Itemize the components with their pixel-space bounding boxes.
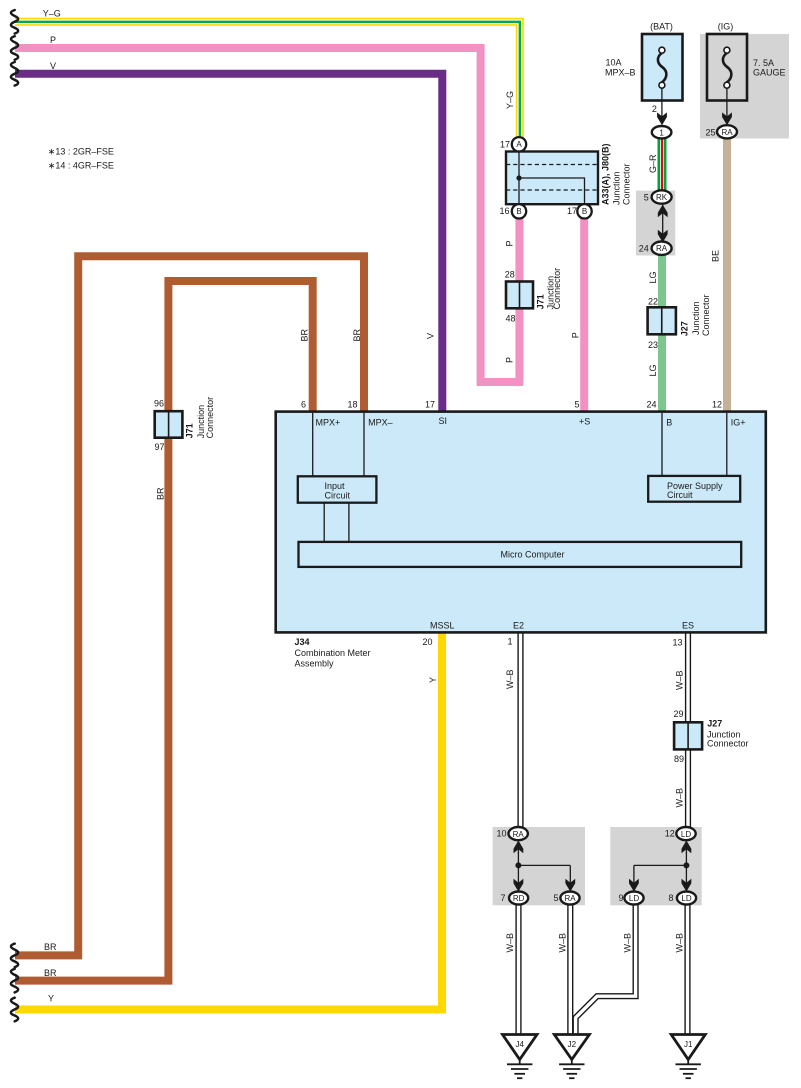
svg-text:89: 89 <box>674 754 684 764</box>
svg-text:48: 48 <box>505 314 515 324</box>
svg-text:BR: BR <box>44 942 57 952</box>
svg-text:W–B: W–B <box>675 788 685 808</box>
svg-text:LD: LD <box>681 830 691 839</box>
svg-text:J4: J4 <box>515 1040 524 1049</box>
svg-text:MSSL: MSSL <box>430 621 455 631</box>
svg-text:(IG): (IG) <box>718 22 734 32</box>
svg-text:W–B: W–B <box>622 933 632 953</box>
svg-text:17: 17 <box>500 140 510 150</box>
svg-text:Circuit: Circuit <box>667 490 693 500</box>
svg-text:(BAT): (BAT) <box>650 22 673 32</box>
svg-text:7: 7 <box>500 893 505 903</box>
svg-text:W–B: W–B <box>674 933 684 953</box>
svg-text:25: 25 <box>705 128 715 138</box>
svg-text:Circuit: Circuit <box>325 491 351 501</box>
svg-text:97: 97 <box>154 442 164 452</box>
svg-text:BR: BR <box>300 328 310 341</box>
svg-text:P: P <box>504 240 514 246</box>
svg-text:+S: +S <box>579 417 590 427</box>
svg-text:23: 23 <box>648 340 658 350</box>
svg-text:12: 12 <box>712 400 722 410</box>
svg-text:LG: LG <box>648 271 658 283</box>
svg-text:RD: RD <box>513 894 525 903</box>
svg-text:J2: J2 <box>568 1040 577 1049</box>
svg-text:J71: J71 <box>185 423 195 438</box>
svg-text:W–B: W–B <box>557 933 567 953</box>
svg-text:5: 5 <box>553 893 558 903</box>
svg-text:MPX–: MPX– <box>368 417 393 427</box>
svg-text:V: V <box>50 61 56 71</box>
svg-text:7. 5A: 7. 5A <box>753 58 774 68</box>
svg-text:LG: LG <box>648 364 658 376</box>
svg-text:Junction: Junction <box>691 301 701 335</box>
svg-text:29: 29 <box>673 709 683 719</box>
svg-text:J1: J1 <box>684 1040 693 1049</box>
svg-text:J34: J34 <box>295 637 310 647</box>
svg-text:LD: LD <box>681 894 691 903</box>
svg-text:E2: E2 <box>513 621 524 631</box>
svg-text:5: 5 <box>644 193 649 203</box>
svg-text:Connector: Connector <box>552 268 562 310</box>
svg-text:BR: BR <box>44 968 57 978</box>
svg-text:12: 12 <box>665 829 675 839</box>
svg-text:2: 2 <box>652 104 657 114</box>
svg-text:W–B: W–B <box>675 670 685 690</box>
svg-text:96: 96 <box>154 399 164 409</box>
svg-text:17: 17 <box>567 206 577 216</box>
svg-text:BR: BR <box>352 328 362 341</box>
svg-text:Y–G: Y–G <box>505 91 515 109</box>
svg-text:G–R: G–R <box>648 154 658 173</box>
svg-text:Connector: Connector <box>621 163 631 205</box>
svg-text:9: 9 <box>618 893 623 903</box>
svg-text:6: 6 <box>301 400 306 410</box>
svg-text:5: 5 <box>574 400 579 410</box>
svg-text:1: 1 <box>659 128 664 137</box>
svg-text:SI: SI <box>439 416 448 426</box>
svg-text:20: 20 <box>422 637 432 647</box>
svg-text:P: P <box>50 35 56 45</box>
svg-text:28: 28 <box>505 270 515 280</box>
svg-text:IG+: IG+ <box>731 417 746 427</box>
svg-text:Y: Y <box>428 677 438 683</box>
svg-text:10: 10 <box>496 829 506 839</box>
svg-text:16: 16 <box>499 206 509 216</box>
svg-text:J27: J27 <box>679 321 689 336</box>
svg-text:RK: RK <box>656 193 668 202</box>
svg-text:Combination Meter: Combination Meter <box>295 648 371 658</box>
svg-text:Assembly: Assembly <box>295 659 335 669</box>
svg-text:A: A <box>516 140 522 149</box>
svg-text:RA: RA <box>513 830 525 839</box>
svg-text:24: 24 <box>639 243 649 253</box>
svg-text:ES: ES <box>682 621 694 631</box>
svg-text:8: 8 <box>668 893 673 903</box>
svg-text:Input: Input <box>325 481 346 491</box>
svg-text:∗13 : 2GR–FSE: ∗13 : 2GR–FSE <box>48 147 114 157</box>
svg-text:RA: RA <box>721 128 733 137</box>
svg-text:J27: J27 <box>707 719 722 729</box>
svg-text:RA: RA <box>564 894 576 903</box>
svg-text:GAUGE: GAUGE <box>753 68 786 78</box>
svg-text:17: 17 <box>425 400 435 410</box>
svg-text:Connector: Connector <box>707 739 749 749</box>
svg-text:B: B <box>666 417 672 427</box>
svg-text:Micro Computer: Micro Computer <box>500 550 564 560</box>
svg-text:MPX+: MPX+ <box>316 417 341 427</box>
svg-text:24: 24 <box>646 400 656 410</box>
svg-text:18: 18 <box>347 400 357 410</box>
svg-text:10A: 10A <box>606 58 622 68</box>
svg-text:1: 1 <box>507 637 512 647</box>
svg-text:B: B <box>516 207 521 216</box>
svg-text:BR: BR <box>155 487 165 500</box>
svg-text:MPX–B: MPX–B <box>605 68 636 78</box>
svg-text:W–B: W–B <box>505 669 515 689</box>
svg-text:W–B: W–B <box>505 933 515 953</box>
svg-text:Y: Y <box>48 993 54 1003</box>
svg-text:P: P <box>504 357 514 363</box>
svg-text:Y–G: Y–G <box>43 8 61 18</box>
svg-text:Connector: Connector <box>701 294 711 336</box>
svg-text:J71: J71 <box>536 294 546 309</box>
svg-text:RA: RA <box>656 244 668 253</box>
svg-text:∗14 : 4GR–FSE: ∗14 : 4GR–FSE <box>48 161 114 171</box>
svg-text:V: V <box>426 333 436 339</box>
svg-text:Junction: Junction <box>612 171 622 205</box>
svg-text:22: 22 <box>648 297 658 307</box>
svg-text:Connector: Connector <box>205 397 215 439</box>
svg-text:BE: BE <box>711 250 721 262</box>
svg-text:LD: LD <box>629 894 639 903</box>
svg-text:B: B <box>582 207 587 216</box>
svg-text:P: P <box>570 332 580 338</box>
svg-text:A33(A), J80(B): A33(A), J80(B) <box>601 143 611 205</box>
svg-text:13: 13 <box>672 638 682 648</box>
